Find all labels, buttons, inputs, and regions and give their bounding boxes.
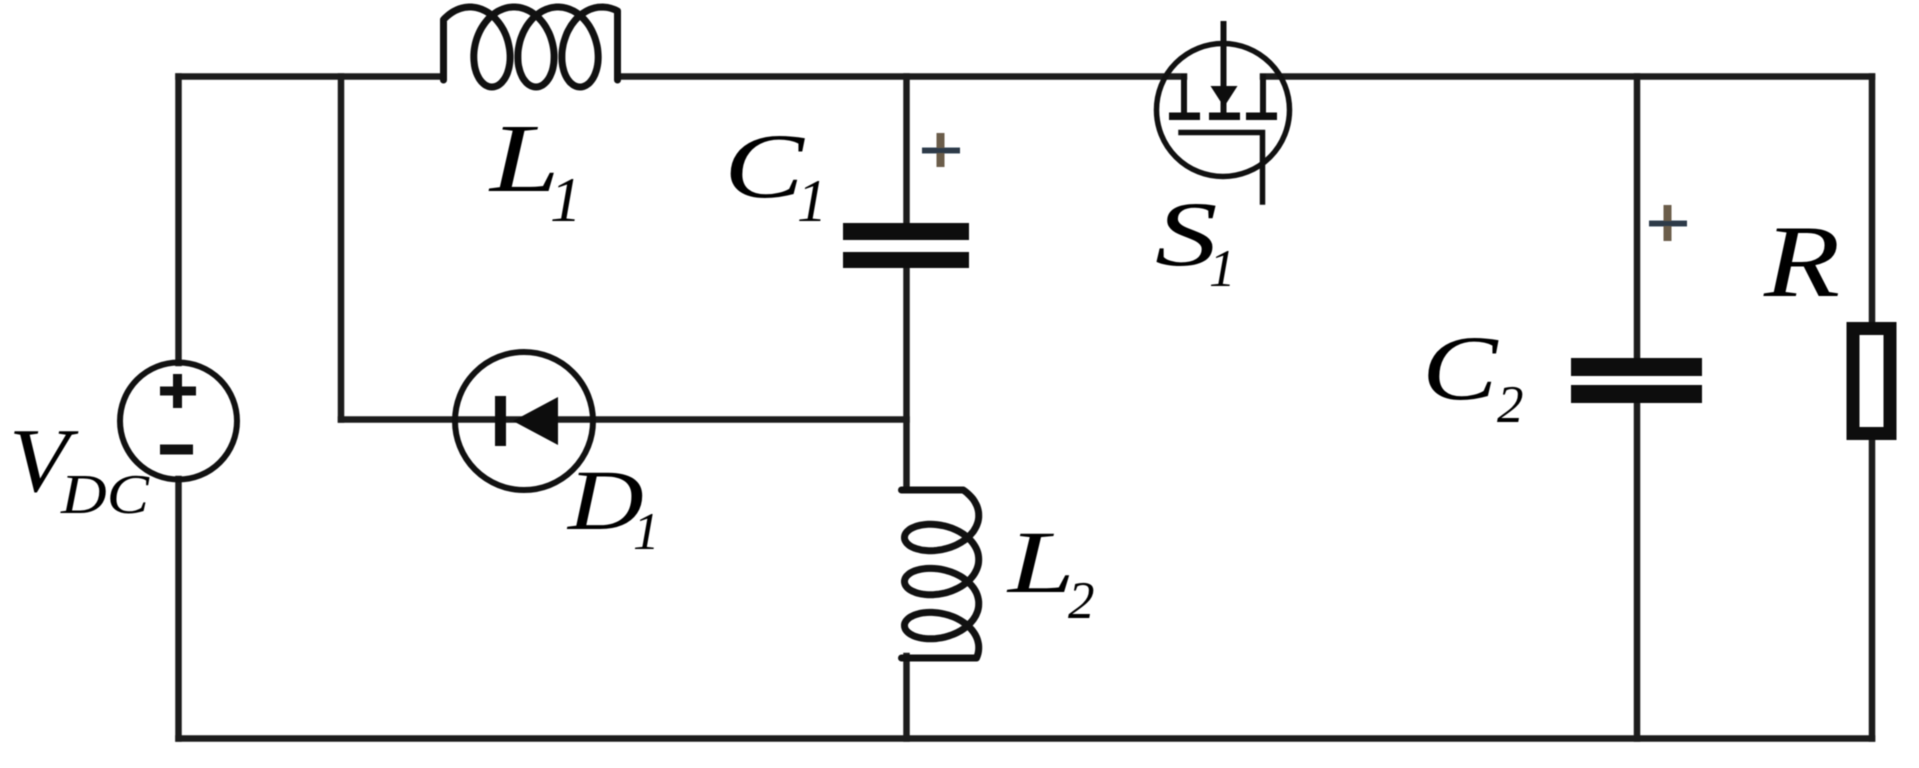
capacitor C2 polarity plus: [1649, 205, 1687, 241]
wire right branch (R): [1869, 77, 1876, 739]
wire top rail: [179, 73, 1873, 80]
diode D1 triangle: [513, 397, 558, 445]
label D1: [568, 457, 644, 543]
diode D1 circle: [455, 352, 593, 490]
transistor S1 source lead: [1260, 77, 1266, 114]
wire left branch (VDC): [175, 77, 182, 739]
capacitor C1 plates: [843, 223, 969, 268]
label L1: [490, 110, 560, 208]
wire C2 branch: [1634, 77, 1641, 739]
label S1: [1155, 188, 1218, 280]
wire diode horizontal: [341, 416, 907, 423]
label L2: [1008, 519, 1075, 608]
transistor S1 circle: [1157, 44, 1290, 177]
transistor S1 body stub: [1221, 24, 1227, 114]
label C1: [724, 120, 804, 212]
inductor L2: [902, 490, 979, 658]
wire C1 branch: [903, 77, 910, 739]
transistor S1 drain lead: [1181, 77, 1187, 114]
source VDC circle: [120, 363, 237, 480]
source VDC plus: [160, 374, 196, 408]
wire bottom rail: [179, 735, 1873, 742]
resistor R body: [1853, 329, 1890, 434]
source VDC minus: [160, 445, 193, 455]
label R: [1764, 211, 1840, 314]
inductor L1: [444, 7, 618, 87]
label C2: [1422, 322, 1497, 414]
transistor S1 gate: [1181, 133, 1263, 203]
diode D1 cathode bar: [495, 396, 506, 446]
capacitor C1 polarity plus: [922, 133, 960, 167]
transistor S1 channel bars: [1169, 113, 1277, 121]
transistor S1 body arrow: [1211, 86, 1238, 107]
capacitor C2 plates: [1571, 358, 1702, 403]
label VDC: [9, 415, 69, 506]
wire diode feed vertical: [338, 77, 345, 420]
